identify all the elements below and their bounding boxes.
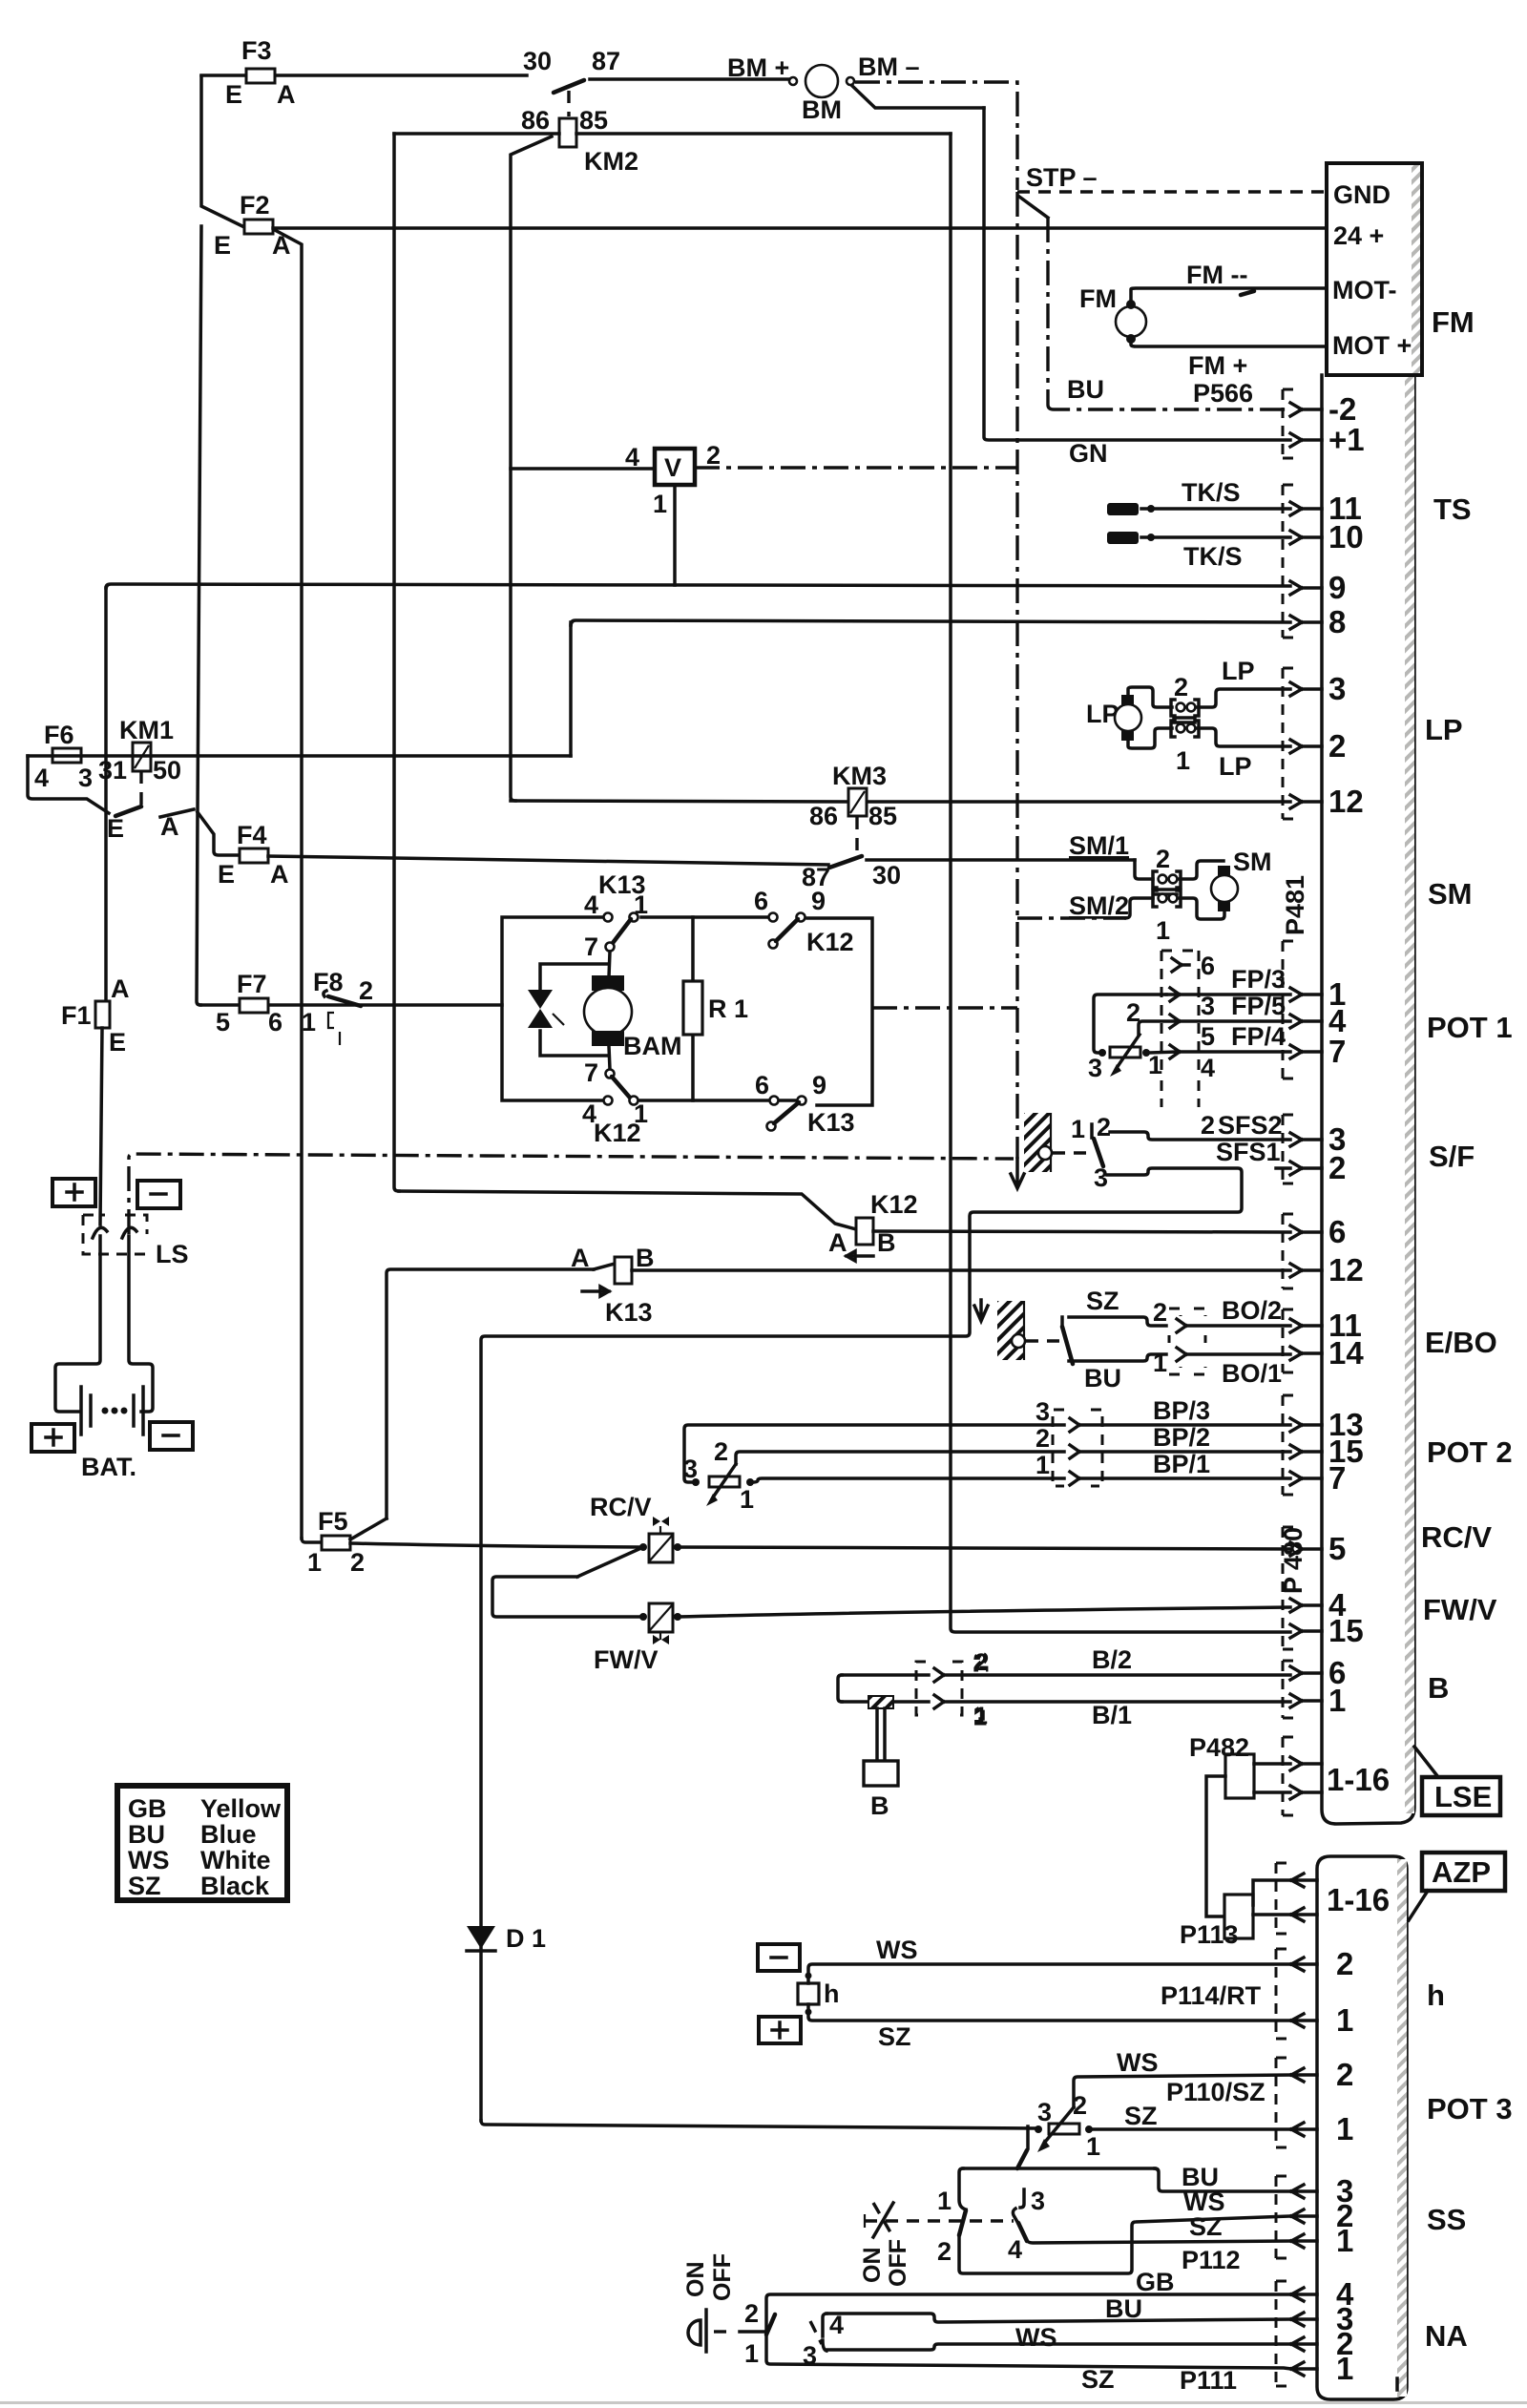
wire SS-4 to SZ pin 1 bbox=[1027, 2241, 1291, 2243]
sensor B bracket bbox=[838, 1675, 842, 1702]
wire B/2 to pin 6 bbox=[842, 1645, 1290, 1682]
svg-text:TS: TS bbox=[1433, 492, 1472, 526]
wire V pin2 dash-dot to STP bus bbox=[695, 466, 1017, 469]
svg-text:P114/RT: P114/RT bbox=[1161, 1981, 1262, 2010]
relay KM1 coil bbox=[98, 716, 181, 809]
relay coil K12 bbox=[399, 1190, 918, 1261]
svg-text:E: E bbox=[107, 814, 124, 843]
contact bar SM bbox=[1156, 890, 1177, 894]
svg-text:3: 3 bbox=[803, 2341, 817, 2370]
svg-text:F6: F6 bbox=[44, 721, 74, 749]
svg-text:1: 1 bbox=[1336, 2111, 1353, 2146]
wire KM2-86 diagonal branch to V bus bbox=[511, 136, 552, 801]
bus GN vertical + wire GN to pin +1 bbox=[984, 108, 1290, 468]
svg-text:E: E bbox=[218, 860, 235, 889]
svg-text:30: 30 bbox=[523, 47, 552, 75]
wire LP contact1 to pin 2 bbox=[1198, 728, 1290, 746]
svg-text:2: 2 bbox=[359, 976, 373, 1005]
svg-text:6: 6 bbox=[754, 887, 768, 915]
svg-text:BAT.: BAT. bbox=[81, 1453, 136, 1481]
switch F8 bbox=[302, 968, 373, 1045]
svg-text:2: 2 bbox=[1097, 1113, 1111, 1141]
svg-text:15: 15 bbox=[1328, 1613, 1364, 1648]
wire STP- dashed to GND pin bbox=[1017, 190, 1327, 193]
connector BO/1 + wire to pin 14 bbox=[1169, 1367, 1205, 1374]
svg-text:K12: K12 bbox=[870, 1190, 918, 1219]
connector P482 bbox=[1189, 1733, 1290, 1798]
SS rail top bbox=[963, 2167, 1155, 2170]
svg-text:1: 1 bbox=[302, 1008, 316, 1036]
wire BP/1 from pot-1 to pin 7 bbox=[754, 1450, 1290, 1485]
wire SM/2 dash-dot from STP bus bbox=[1017, 891, 1129, 920]
svg-text:POT 2: POT 2 bbox=[1427, 1435, 1513, 1469]
svg-text:9: 9 bbox=[1328, 570, 1346, 605]
wire P482 to P113 bbox=[1206, 1776, 1225, 1916]
BAM block frame bbox=[502, 917, 872, 1105]
switch NA pole bbox=[740, 2299, 775, 2368]
svg-text:1: 1 bbox=[1336, 2351, 1353, 2386]
svg-text:V: V bbox=[664, 453, 681, 482]
svg-text:6: 6 bbox=[755, 1071, 769, 1099]
wire bus to SS blade bbox=[1026, 2126, 1030, 2148]
SS pole B blade bbox=[1018, 2223, 1027, 2241]
svg-text:FM: FM bbox=[1432, 305, 1475, 339]
switch SS pole A blade bbox=[1017, 2150, 1027, 2168]
wire NA GB to pin 4 bbox=[766, 2268, 1291, 2332]
relay contact KM3 87/30 bbox=[802, 817, 901, 891]
bus KM2-86 vertical (to K12 coil) bbox=[394, 134, 399, 1191]
fuse F6 bbox=[34, 721, 93, 792]
svg-text:B: B bbox=[870, 1791, 889, 1820]
wire h WS to pin 2 bbox=[808, 1936, 1291, 1983]
svg-text:86: 86 bbox=[521, 106, 550, 135]
svg-text:F8: F8 bbox=[313, 968, 344, 996]
svg-text:BU: BU bbox=[1105, 2294, 1142, 2323]
svg-text:A: A bbox=[270, 860, 289, 889]
contact pair SM-2 bbox=[1153, 845, 1181, 888]
fuse F7 bbox=[200, 970, 502, 1036]
wire LP bottom to contact 1 bbox=[1128, 728, 1172, 748]
svg-text:2: 2 bbox=[1336, 2057, 1353, 2092]
suppressor diode pair (transil) bbox=[528, 964, 609, 1056]
spare pin arrow 6 (FP) bbox=[1172, 952, 1215, 980]
wire contact2 to SM motor top bbox=[1180, 861, 1224, 879]
svg-text:1: 1 bbox=[1176, 746, 1190, 775]
svg-text:3: 3 bbox=[1031, 2187, 1045, 2215]
svg-text:87: 87 bbox=[592, 47, 620, 75]
lamp NA bbox=[688, 2310, 735, 2352]
svg-text:5: 5 bbox=[216, 1008, 230, 1036]
bus from F2-A down to F5 bbox=[275, 230, 302, 1539]
dashed pin-group brackets (AZP side) bbox=[1276, 1863, 1289, 2386]
relay coil K13 bbox=[571, 1244, 655, 1327]
svg-text:1: 1 bbox=[1086, 2132, 1100, 2161]
wire SM/1 jog to contact 2 bbox=[1069, 831, 1153, 879]
wire SFS1 from contact 3 bbox=[481, 1138, 1281, 2121]
svg-text:SM/1: SM/1 bbox=[1069, 831, 1129, 860]
polarity terminal + (BAT) bbox=[31, 1424, 74, 1452]
svg-text:1: 1 bbox=[653, 490, 667, 518]
svg-text:7: 7 bbox=[1328, 1034, 1346, 1069]
svg-text:B: B bbox=[636, 1244, 655, 1272]
svg-text:31: 31 bbox=[98, 756, 127, 785]
sensor h bbox=[798, 1973, 840, 2016]
svg-text:F7: F7 bbox=[237, 970, 267, 998]
battery disconnect LS dashed box bbox=[83, 1215, 189, 1268]
fuse F1 bbox=[61, 974, 130, 1057]
svg-text:1: 1 bbox=[1148, 1051, 1162, 1079]
SS left edge down to bottom rail bbox=[959, 2216, 1291, 2273]
svg-text:h: h bbox=[824, 1979, 840, 2008]
dashed pin-group brackets (LSE side) bbox=[1283, 389, 1296, 1815]
wire BU contact to BO/1 bbox=[1069, 1349, 1167, 1392]
connector AZP pin arrows bbox=[1291, 1874, 1354, 2386]
svg-text:BO/2: BO/2 bbox=[1222, 1296, 1282, 1325]
wire NA-4 BU to pin 3 bbox=[826, 2294, 1291, 2323]
polarity terminal - (BAT) bbox=[150, 1422, 193, 1450]
svg-text:2: 2 bbox=[714, 1437, 728, 1466]
svg-text:E/BO: E/BO bbox=[1425, 1326, 1497, 1359]
pump motor LP bbox=[1086, 695, 1141, 741]
svg-text:1: 1 bbox=[974, 1703, 988, 1729]
potentiometer FP (POT1) bbox=[1088, 998, 1162, 1082]
svg-text:K13: K13 bbox=[807, 1108, 855, 1137]
svg-text:P110/SZ: P110/SZ bbox=[1166, 2078, 1266, 2106]
wire FP/4 from pot-1 to pin 7 bbox=[1150, 1022, 1290, 1082]
svg-text:5: 5 bbox=[1328, 1531, 1346, 1566]
SS pole B contact hook bbox=[937, 2209, 1022, 2266]
dashed actuator link E/BO bbox=[1026, 1339, 1059, 1342]
switch blade E-A bbox=[107, 806, 194, 843]
motor BAM bbox=[584, 975, 682, 1060]
svg-text:2: 2 bbox=[1328, 1150, 1346, 1185]
wire KM2-86 to bus bbox=[394, 132, 559, 136]
svg-text:3: 3 bbox=[1035, 1397, 1050, 1426]
svg-text:White: White bbox=[200, 1846, 271, 1874]
svg-text:P112: P112 bbox=[1182, 2246, 1241, 2274]
actuation arrow (down, E/BO) bbox=[974, 1300, 988, 1321]
svg-text:MOT +: MOT + bbox=[1332, 331, 1412, 360]
svg-text:2: 2 bbox=[1153, 1298, 1167, 1327]
wire F4-A to KM3-87 bbox=[268, 856, 828, 865]
svg-text:FP/5: FP/5 bbox=[1231, 992, 1286, 1020]
wire POT3 wiper WS to pin 2 bbox=[1074, 2048, 1291, 2107]
svg-text:BU: BU bbox=[1084, 1364, 1121, 1392]
svg-text:BM: BM bbox=[802, 95, 842, 124]
svg-text:LP: LP bbox=[1425, 713, 1463, 746]
wire 87 to BM+ bbox=[590, 77, 791, 81]
wire colour labels SS bbox=[1182, 2163, 1241, 2274]
svg-text:WS: WS bbox=[128, 1846, 170, 1874]
svg-text:BP/1: BP/1 bbox=[1153, 1450, 1210, 1478]
svg-text:7: 7 bbox=[584, 1058, 598, 1087]
svg-text:SM: SM bbox=[1233, 848, 1272, 876]
svg-text:P482: P482 bbox=[1189, 1733, 1249, 1762]
svg-text:K13: K13 bbox=[605, 1298, 653, 1327]
SS contact 1 bbox=[937, 2168, 966, 2215]
svg-text:SM: SM bbox=[1428, 877, 1473, 911]
svg-text:SZ: SZ bbox=[1124, 2102, 1158, 2130]
switch NA second pole (3-4) bbox=[803, 2311, 844, 2370]
svg-text:12: 12 bbox=[1328, 784, 1364, 819]
wire K13-B to pin 12 bbox=[632, 1268, 1290, 1272]
svg-text:h: h bbox=[1427, 1979, 1445, 2012]
fuse F2 bbox=[214, 191, 291, 260]
svg-text:TK/S: TK/S bbox=[1183, 542, 1243, 571]
svg-text:1: 1 bbox=[937, 2187, 952, 2215]
wire pin9 bus down to F1 bbox=[104, 588, 108, 1003]
wire dash-dot BAM frame to STP bus bbox=[872, 1006, 1017, 1009]
label ON/OFF (NA, rotated) bbox=[682, 2253, 736, 2301]
wire to pin 9 bbox=[106, 584, 1290, 588]
svg-text:12: 12 bbox=[1328, 1252, 1364, 1288]
wire F5-2 to RC/V and pin 5 bbox=[350, 1543, 641, 1547]
wire BP/3 loop to pin 13 bbox=[684, 1396, 1290, 1482]
relay coil KM3 bbox=[809, 762, 897, 830]
svg-text:2: 2 bbox=[974, 1649, 988, 1676]
connector P113 bbox=[1180, 1880, 1290, 1949]
wire KM1-50 corner up to wire 8 bbox=[569, 622, 573, 756]
svg-text:LS: LS bbox=[156, 1240, 189, 1268]
potentiometer BP (POT2) bbox=[683, 1437, 754, 1514]
svg-text:9: 9 bbox=[811, 887, 826, 915]
svg-text:2: 2 bbox=[1156, 845, 1170, 873]
wire LP contact2 to pin 3 bbox=[1198, 689, 1290, 707]
wire KM3-86 rail from V bus to pin 12 bbox=[511, 801, 1290, 802]
svg-text:NA: NA bbox=[1425, 2319, 1468, 2353]
svg-text:B/1: B/1 bbox=[1092, 1701, 1132, 1729]
wire SS rail to BU pin 3 bbox=[1155, 2168, 1291, 2191]
wire SFS2 to pin 3 bbox=[1110, 1111, 1290, 1140]
svg-text:KM2: KM2 bbox=[584, 147, 638, 176]
svg-text:FM --: FM -- bbox=[1186, 261, 1247, 289]
svg-text:2: 2 bbox=[744, 2299, 759, 2328]
connector BO/2 + wire to pin 11 bbox=[1169, 1309, 1205, 1343]
relay contact KM2 30/87 bbox=[523, 47, 620, 116]
wire POT3-1 SZ to pin 1 bbox=[1093, 2078, 1291, 2130]
polarity terminal - (h) bbox=[758, 1944, 800, 1971]
svg-text:10: 10 bbox=[1328, 519, 1364, 555]
wall (E/BO actuator) bbox=[997, 1301, 1024, 1360]
svg-text:K12: K12 bbox=[594, 1119, 641, 1147]
wire BP/2 from wiper to pin 15 bbox=[736, 1423, 1290, 1464]
motor SM bbox=[1211, 848, 1272, 911]
wire bus D1 to POT3 pot bbox=[481, 2121, 1035, 2128]
svg-text:B: B bbox=[1428, 1671, 1449, 1705]
svg-text:1: 1 bbox=[1328, 1683, 1346, 1718]
contact pair LP-2 bbox=[1171, 673, 1199, 716]
dashed connector box BP bbox=[1053, 1410, 1102, 1486]
wire F5-2 diagonal to K13 bus bbox=[350, 1518, 387, 1539]
wire FM+ to MOT+ bbox=[1131, 339, 1327, 380]
svg-text:3: 3 bbox=[1094, 1163, 1108, 1192]
svg-text:30: 30 bbox=[872, 861, 901, 890]
svg-text:SM/2: SM/2 bbox=[1069, 891, 1129, 920]
hour counter V bbox=[625, 441, 721, 518]
motor BM bbox=[727, 52, 920, 124]
svg-text:BU: BU bbox=[1067, 375, 1104, 404]
svg-text:F5: F5 bbox=[318, 1507, 348, 1536]
svg-text:F2: F2 bbox=[240, 191, 270, 220]
svg-text:SZ: SZ bbox=[1189, 2212, 1223, 2241]
svg-text:STP –: STP – bbox=[1026, 163, 1098, 192]
wire FW/V loop + diagonal to RC/V bbox=[492, 1547, 643, 1617]
wire B/1 to pin 1 bbox=[842, 1695, 1290, 1729]
svg-text:6: 6 bbox=[1201, 952, 1215, 980]
svg-text:P481: P481 bbox=[1281, 875, 1309, 935]
limit switch S/F contacts 1-2-3 bbox=[1071, 1113, 1111, 1192]
svg-text:24 +: 24 + bbox=[1333, 221, 1384, 250]
wire SM/2 jog to contact 1 bbox=[1126, 898, 1153, 918]
svg-text:1: 1 bbox=[1153, 1349, 1167, 1377]
polarity terminal + (h) bbox=[759, 2017, 801, 2043]
wire to pin 8 (from KM1-50) bbox=[571, 620, 1290, 625]
svg-text:14: 14 bbox=[1328, 1335, 1364, 1371]
svg-text:P111: P111 bbox=[1180, 2366, 1237, 2395]
dashed connector box B bbox=[916, 1649, 988, 1729]
svg-text:BM +: BM + bbox=[727, 53, 789, 82]
legend colour code box bbox=[117, 1786, 287, 1900]
svg-text:E: E bbox=[109, 1028, 126, 1057]
svg-text:GB: GB bbox=[1136, 2268, 1175, 2296]
wire BM- solid branch to GN bus bbox=[852, 86, 984, 108]
svg-text:K12: K12 bbox=[806, 928, 854, 956]
svg-text:A: A bbox=[111, 974, 130, 1003]
relay contact K13 (top, 4-1-7) bbox=[584, 870, 648, 961]
contact pair LP-1 bbox=[1171, 721, 1199, 775]
svg-text:3: 3 bbox=[1328, 671, 1346, 706]
wire 24+ from F2 to connector bbox=[273, 226, 1327, 230]
valve RC/V bbox=[590, 1493, 681, 1562]
wire contact1 to SM motor bottom bbox=[1180, 898, 1224, 919]
wire FW/V to pin 4 bbox=[678, 1607, 1290, 1617]
svg-text:FP/4: FP/4 bbox=[1231, 1022, 1286, 1051]
fuse F3 bbox=[201, 36, 527, 109]
svg-text:1: 1 bbox=[740, 1485, 754, 1514]
net section labels FM TS LP SM POT1 S/F E/BO POT2 RC/V FW/V B bbox=[1421, 305, 1513, 1705]
svg-text:GND: GND bbox=[1333, 180, 1391, 209]
valve FW/V bbox=[594, 1603, 681, 1674]
svg-text:BM –: BM – bbox=[858, 52, 920, 81]
svg-text:3: 3 bbox=[1201, 992, 1215, 1020]
svg-text:4: 4 bbox=[584, 890, 598, 919]
wire BU / P566 dash-dot to pin -2 bbox=[1048, 375, 1290, 409]
svg-text:KM3: KM3 bbox=[832, 762, 887, 790]
relay coil KM2 bbox=[521, 106, 638, 176]
svg-text:1: 1 bbox=[1035, 1451, 1050, 1479]
relay contact K13 (bottom right, 6-9) bbox=[755, 1071, 855, 1137]
wire LS to battery left bbox=[55, 1236, 100, 1412]
wire 30 to SM/1 bbox=[867, 858, 1135, 862]
svg-text:RC/V: RC/V bbox=[1421, 1520, 1492, 1554]
svg-text:ON: ON bbox=[682, 2262, 709, 2298]
svg-text:LP: LP bbox=[1222, 657, 1255, 685]
fuse F5 bbox=[302, 1507, 365, 1577]
svg-text:OFF: OFF bbox=[885, 2239, 911, 2287]
svg-text:B/2: B/2 bbox=[1092, 1645, 1132, 1674]
ignition switch E/A feed staircase bbox=[28, 756, 109, 813]
fuse F4 bbox=[198, 812, 289, 889]
svg-text:2: 2 bbox=[350, 1548, 365, 1577]
svg-text:F4: F4 bbox=[237, 821, 267, 849]
bus KM1-A/E continuation down to F7 bbox=[197, 226, 201, 1005]
relay contact K12 (bottom, 7-4-1) bbox=[582, 1058, 648, 1147]
bus from F3-E down to F2 and KM1-A bbox=[201, 76, 242, 226]
svg-text:A: A bbox=[828, 1228, 847, 1257]
svg-text:+1: +1 bbox=[1328, 422, 1365, 457]
svg-text:POT 1: POT 1 bbox=[1427, 1011, 1513, 1044]
connector LSE top section box (FM: GND,24+,MOT-,MOT+) bbox=[1327, 163, 1422, 375]
wire F6/KM1 rail bbox=[28, 754, 571, 758]
svg-text:3: 3 bbox=[1037, 2098, 1052, 2126]
wire NA bottom SZ to pin 1 bbox=[766, 2332, 1291, 2395]
svg-text:3: 3 bbox=[1088, 1054, 1102, 1082]
battery BAT plates bbox=[81, 1387, 143, 1481]
svg-text:2: 2 bbox=[937, 2237, 952, 2266]
svg-text:F1: F1 bbox=[61, 1001, 92, 1030]
bus STP branch to BU bbox=[1046, 218, 1049, 405]
svg-text:S/F: S/F bbox=[1429, 1140, 1475, 1173]
AZP label box bbox=[1409, 1853, 1505, 1920]
svg-text:BP/2: BP/2 bbox=[1153, 1423, 1210, 1452]
svg-text:SZ: SZ bbox=[1086, 1287, 1119, 1315]
svg-text:ON: ON bbox=[859, 2248, 886, 2284]
net section labels h POT3 SS NA bbox=[1425, 1979, 1513, 2353]
wire FP/3 loop to pot-3 bbox=[1094, 995, 1166, 1053]
svg-text:FW/V: FW/V bbox=[594, 1645, 659, 1674]
svg-text:SFS2: SFS2 bbox=[1218, 1111, 1283, 1140]
bus KM2-85 vertical down to FW/V pin15 bbox=[951, 134, 1290, 1632]
svg-text:A: A bbox=[571, 1244, 590, 1272]
svg-text:6: 6 bbox=[1328, 1214, 1346, 1249]
wire F5/K13 bus up from F5 bbox=[387, 1269, 594, 1518]
polarity terminal + (LS) bbox=[52, 1179, 95, 1206]
svg-text:GN: GN bbox=[1069, 439, 1108, 468]
svg-text:SZ: SZ bbox=[128, 1872, 161, 1900]
svg-text:50: 50 bbox=[153, 756, 181, 785]
svg-text:7: 7 bbox=[1328, 1460, 1346, 1496]
svg-text:4: 4 bbox=[1201, 1054, 1215, 1082]
svg-text:F3: F3 bbox=[241, 36, 272, 65]
resistor R1 bbox=[683, 917, 748, 1100]
svg-text:8: 8 bbox=[1328, 604, 1346, 639]
label ON/OFF (SS, rotated) bbox=[859, 2239, 911, 2287]
dashed actuator link SS + manual symbol bbox=[865, 2203, 1014, 2237]
wire K13-7 to BAM top bbox=[609, 952, 610, 977]
wire FP/5 from pot wiper to pin 4 bbox=[1139, 992, 1290, 1035]
svg-text:E: E bbox=[225, 80, 242, 109]
svg-text:1: 1 bbox=[1336, 2223, 1353, 2258]
svg-text:MOT-: MOT- bbox=[1332, 276, 1397, 304]
wire FP/3 to pin 1 bbox=[1166, 965, 1290, 1001]
bus STP dash-dot vertical (to S/F) bbox=[1015, 192, 1018, 1159]
svg-text:TK/S: TK/S bbox=[1182, 478, 1241, 507]
svg-text:FW/V: FW/V bbox=[1423, 1593, 1497, 1626]
svg-text:7: 7 bbox=[584, 932, 598, 961]
wire STP branch diagonal bbox=[1019, 197, 1048, 218]
svg-text:WS: WS bbox=[1117, 2048, 1159, 2077]
SS contact 3 hook bbox=[1020, 2187, 1045, 2215]
svg-text:WS: WS bbox=[1015, 2323, 1057, 2352]
svg-text:2: 2 bbox=[1174, 673, 1188, 701]
LS contact right bbox=[122, 1227, 136, 1238]
svg-text:2: 2 bbox=[1328, 728, 1346, 764]
svg-text:AZP: AZP bbox=[1432, 1855, 1491, 1889]
wire FM-- to MOT- bbox=[1131, 261, 1327, 304]
plunger E/BO bbox=[1012, 1334, 1025, 1348]
svg-text:1: 1 bbox=[744, 2339, 759, 2368]
pin 2 stub (S/F) bbox=[1276, 1166, 1290, 1170]
